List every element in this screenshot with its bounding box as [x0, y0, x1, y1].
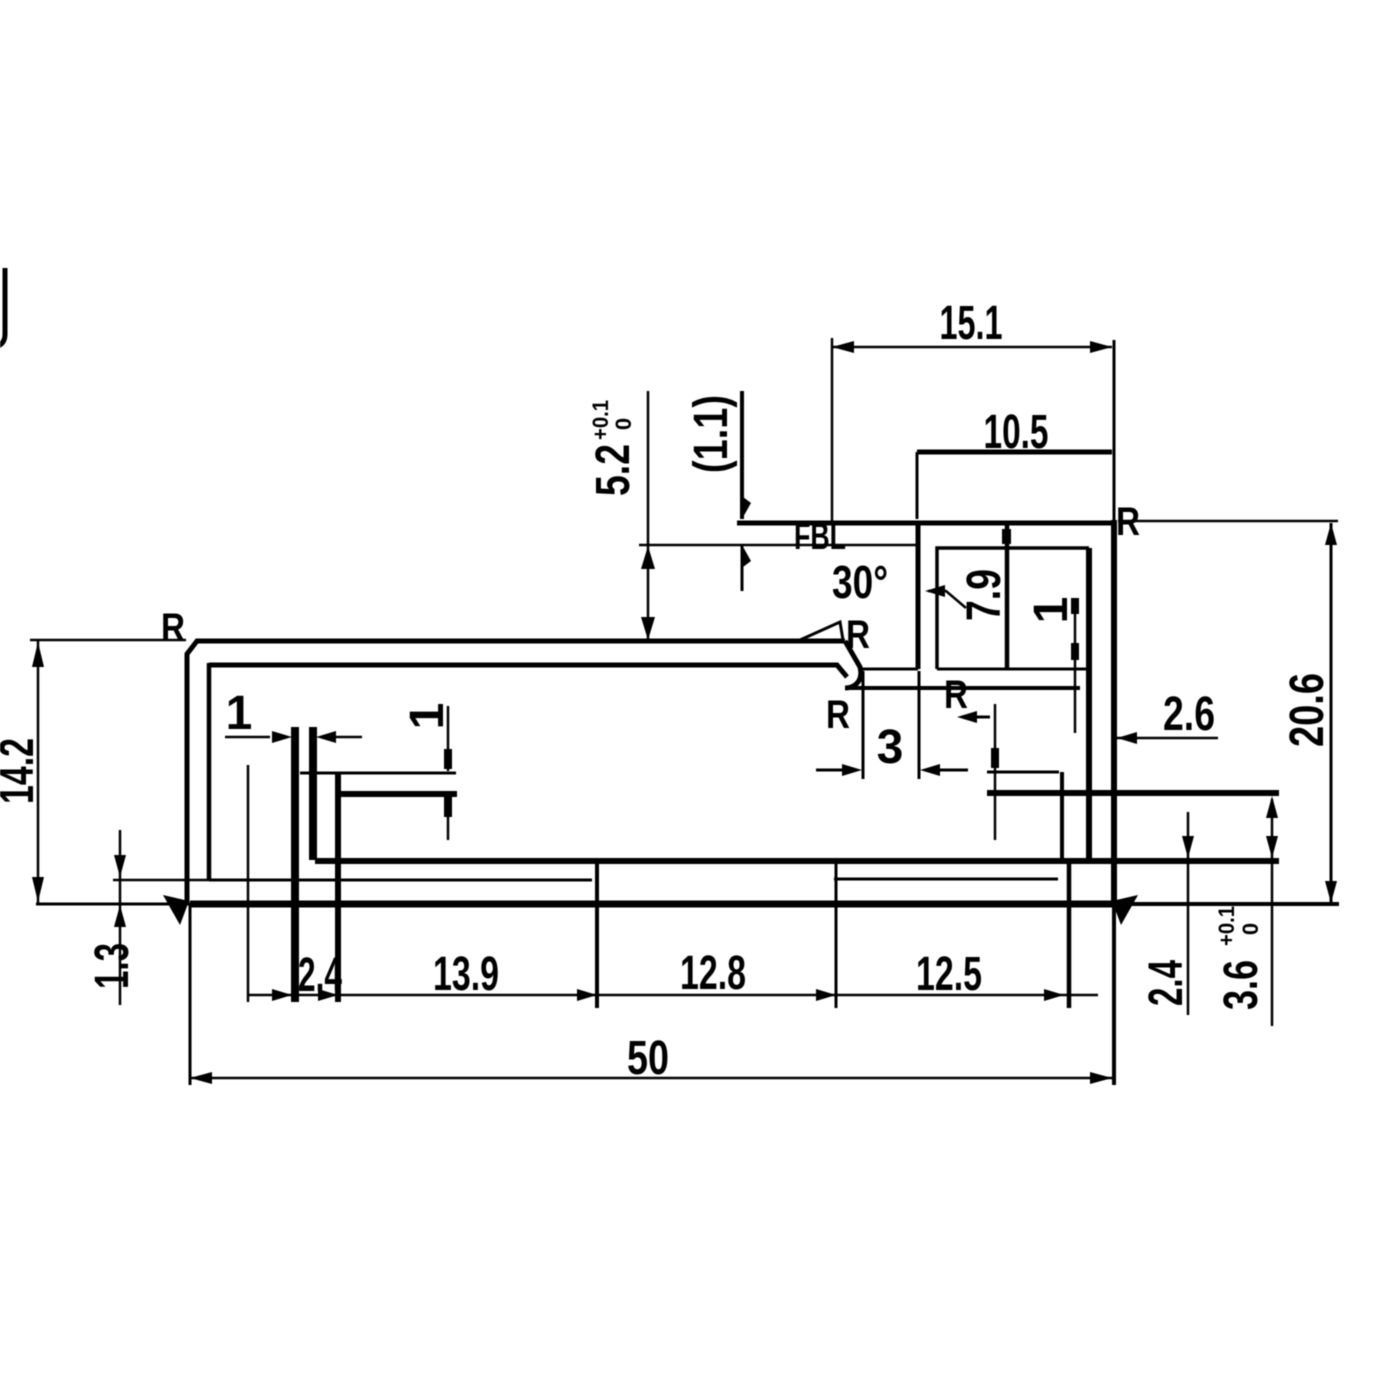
svg-text:50: 50: [627, 1032, 669, 1085]
svg-text:2.4: 2.4: [1140, 960, 1193, 1006]
fin1: [291, 727, 299, 1002]
block left wall x=918: [916, 521, 921, 669]
shelf thin right y=772: [987, 771, 1059, 774]
vline x=338: [335, 773, 341, 1002]
dim (1.1): [740, 391, 744, 519]
step edge x=1062: [1060, 772, 1064, 858]
svg-text:FBL: FBL: [794, 516, 846, 558]
slot floor line y=688: [846, 686, 1080, 690]
inner top line: [209, 665, 847, 677]
cavity right heavy wall: [1086, 548, 1092, 862]
inner left wall: [207, 663, 212, 881]
svg-text:10.5: 10.5: [984, 406, 1049, 459]
svg-text:+0.1: +0.1: [1214, 906, 1239, 946]
svg-text:3.6: 3.6: [1215, 960, 1268, 1010]
outer bottom: [190, 901, 1120, 908]
dim 50: [190, 1077, 1112, 1080]
svg-text:1: 1: [1025, 597, 1078, 624]
svg-text:0: 0: [611, 418, 636, 430]
svg-text:R: R: [846, 613, 870, 657]
svg-text:2.4: 2.4: [298, 949, 342, 1002]
dim 1 cavity right: [1074, 598, 1077, 733]
dim 1 shelf: [447, 706, 450, 771]
ext x=1069: [1067, 862, 1072, 1008]
inner bottom thin right: [834, 878, 1058, 881]
ext x=597: [595, 862, 599, 1008]
svg-text:1.3: 1.3: [86, 943, 139, 989]
dim 2.4 right: [1187, 812, 1190, 1015]
svg-text:12.8: 12.8: [680, 947, 746, 1000]
ext x=836: [835, 864, 838, 1008]
svg-text:3: 3: [877, 721, 904, 774]
profile outer left wall and top edge: [187, 641, 845, 905]
dim 2.6: [1117, 737, 1218, 740]
svg-text:R: R: [161, 606, 185, 650]
svg-text:20.6: 20.6: [1281, 673, 1334, 747]
svg-text:+0.1: +0.1: [588, 400, 613, 440]
dim 15.1: [832, 346, 1112, 349]
x995 dim: [994, 704, 997, 840]
shelf thin left y=773: [300, 772, 456, 775]
shelf thick right y=793: [987, 790, 1279, 796]
cropped symbol at left edge: [0, 268, 5, 346]
svg-text:14.2: 14.2: [0, 738, 44, 804]
corner arrows: [163, 895, 189, 925]
svg-text:2.6: 2.6: [1163, 688, 1215, 741]
svg-text:5.2: 5.2: [587, 444, 640, 496]
dim 5.2: [647, 391, 650, 641]
svg-text:0: 0: [1238, 923, 1263, 935]
top surface y=523: [737, 521, 1114, 526]
inner bottom thin left: [209, 879, 592, 882]
ledge line y=669 chamfer to wall: [860, 668, 918, 671]
dim 20.6: [1330, 523, 1333, 903]
svg-text:7.9: 7.9: [958, 569, 1011, 621]
dim 3.6 right: [1271, 799, 1274, 1026]
svg-text:1: 1: [226, 687, 253, 740]
dim 10.5: [917, 450, 1112, 455]
cavity partition x=1007: [1005, 525, 1010, 669]
cavity box: [937, 548, 1089, 669]
fin2: [309, 727, 317, 860]
30deg arrow triangle: [800, 622, 843, 640]
shelf thick left y=794: [339, 791, 457, 797]
svg-text:R: R: [944, 673, 968, 717]
svg-text:15.1: 15.1: [940, 297, 1003, 350]
wall ext below: [918, 671, 921, 779]
vline x=248: [247, 765, 250, 1002]
thin line y=545: [639, 544, 917, 547]
svg-text:12.5: 12.5: [916, 948, 982, 1001]
bottom chain dim: [248, 994, 1098, 997]
right edge x=1114: [1111, 520, 1117, 906]
svg-text:30°: 30°: [832, 556, 888, 608]
chamfer ext below: [862, 671, 865, 779]
dim 3: [816, 769, 844, 772]
svg-text:1: 1: [401, 703, 454, 730]
dim 14.2: [37, 641, 40, 903]
svg-text:R: R: [1116, 500, 1140, 544]
dim 1.3: [113, 879, 209, 882]
svg-text:R: R: [826, 693, 850, 737]
svg-text:(1.1): (1.1): [685, 395, 738, 473]
inner bottom thick y=861: [315, 858, 1279, 864]
7.9 leader: [928, 591, 966, 608]
fin dims: [225, 736, 270, 739]
svg-text:13.9: 13.9: [433, 948, 499, 1001]
R leader bar: [975, 716, 990, 719]
30 deg chamfer edge: [845, 641, 861, 688]
